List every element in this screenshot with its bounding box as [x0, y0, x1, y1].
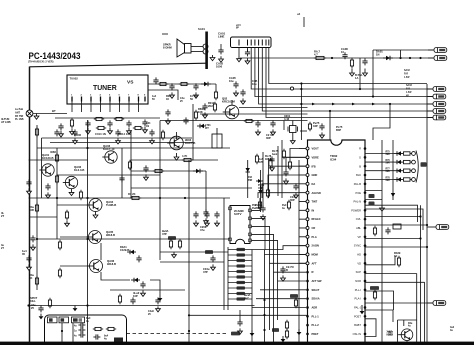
label R112: [208, 101, 215, 108]
svg-text:30P: 30P: [266, 136, 271, 140]
svg-text:1N: 1N: [146, 125, 149, 128]
wire h128: [300, 130, 307, 132]
svg-text:R78: R78: [386, 177, 391, 179]
svg-text:ADR: ADR: [312, 306, 318, 310]
connector plug CNA2: [428, 55, 447, 60]
wire rpin r5: [365, 256, 395, 265]
wire cn227: [427, 226, 430, 228]
wire q106 base: [60, 265, 90, 267]
label D101: [120, 245, 129, 252]
diode D110: [201, 82, 211, 86]
junction dots rail: [399, 57, 421, 59]
wire U201 video out 4: [365, 179, 394, 181]
resistor R129: [48, 298, 51, 308]
resistor R439: [397, 256, 400, 267]
svg-text:8 OHM: 8 OHM: [163, 46, 172, 50]
svg-text:besl: besl: [272, 152, 278, 156]
ground Q104e: [93, 212, 98, 219]
svg-text:TU002: TU002: [70, 77, 79, 81]
diode DA01: [383, 56, 393, 60]
resistor R302: [106, 327, 116, 330]
label left edge 1: [1, 117, 11, 124]
svg-text:2T: 2T: [1, 247, 4, 250]
wire bus L3: [259, 48, 433, 105]
svg-text:R-R: R-R: [404, 74, 408, 76]
diode D201: [197, 124, 206, 128]
resistor R217: [258, 200, 261, 210]
resistor R306: [285, 329, 288, 339]
wire vert x420: [420, 205, 422, 342]
ground C112: [194, 92, 199, 98]
wire audio rail upper: [373, 49, 433, 51]
svg-text:PL 1NB: PL 1NB: [15, 118, 24, 121]
capacitor C127: [136, 255, 141, 262]
wire v160: [159, 121, 161, 261]
wire v269: [269, 258, 271, 330]
capacitor C120: [26, 179, 31, 186]
capacitor C110: [153, 77, 158, 84]
ground C120: [27, 188, 32, 194]
label C126: [31, 303, 36, 310]
svg-text:PDET: PDET: [312, 332, 319, 336]
svg-text:TINT: TINT: [312, 200, 318, 204]
ground C121: [46, 192, 51, 198]
ground R127: [65, 221, 70, 227]
speaker plug pin B: [203, 49, 208, 54]
label R4u: [408, 322, 413, 328]
wire IF line 3: [160, 120, 308, 122]
wire IF line 4: [148, 90, 178, 100]
wire rpin 199: [365, 199, 382, 201]
ground C109: [150, 138, 155, 144]
transistor Q201: [223, 105, 239, 119]
capacitor C129: [130, 297, 135, 304]
svg-text:KL2.0-B: KL2.0-B: [74, 168, 84, 172]
ground C141: [205, 220, 210, 226]
ground under C102: [86, 128, 91, 134]
ground RA08: [350, 69, 355, 77]
svg-text:4068: 4068: [50, 150, 56, 154]
wire top rail: [30, 63, 207, 67]
ground CA05: [234, 90, 239, 96]
wire corner p2: [365, 209, 423, 230]
wire em to gnd: [150, 280, 160, 295]
svg-text:B5R: B5R: [248, 179, 253, 182]
wire pin stub long 1: [290, 149, 299, 161]
label R217: [252, 204, 257, 210]
wire h315: [189, 314, 307, 316]
ground C240: [320, 132, 325, 138]
resistor R103: [94, 117, 104, 120]
label MD1: [421, 162, 427, 167]
label Q103: [103, 144, 115, 151]
wire corner p1: [365, 205, 418, 222]
resistor R211: [153, 169, 164, 172]
label right corner: [450, 326, 455, 332]
wire mid bottom: [110, 289, 185, 291]
switch SW1: [48, 317, 58, 323]
wire rail x382: [381, 140, 383, 342]
capacitor C123: [119, 175, 124, 182]
svg-text:PLL-1: PLL-1: [312, 314, 320, 318]
diode DD77: [394, 169, 403, 173]
diode DD76: [394, 160, 403, 164]
capacitor C142: [214, 211, 219, 218]
svg-text:47P: 47P: [258, 186, 263, 190]
wire hot emitter: [406, 341, 408, 343]
wire hot base: [398, 334, 399, 336]
terminal circle 1: [412, 152, 416, 156]
capacitor C108: [115, 129, 120, 136]
connector plug CNB4: [427, 108, 446, 113]
wire fan 3: [270, 262, 307, 264]
wire box v2: [72, 323, 74, 345]
tag net HOT: [370, 286, 379, 290]
wire drive node 1: [410, 153, 412, 155]
speaker SP01: [177, 39, 191, 57]
resistor R221: [266, 188, 269, 198]
wire rpin r2: [365, 224, 427, 226]
resistor R111: [179, 82, 189, 85]
svg-text:OSL IN: OSL IN: [353, 332, 362, 336]
wire v264: [264, 250, 266, 342]
label R216: [248, 176, 253, 182]
ground C230: [238, 328, 243, 334]
wire fan 5: [278, 280, 307, 282]
svg-text:R: R: [359, 147, 361, 151]
ground C204: [271, 129, 276, 135]
wire dashed net: [127, 333, 228, 335]
tag net v1: [168, 236, 176, 240]
svg-text:KACT-B: KACT-B: [185, 141, 195, 145]
arrow marks bus: [312, 103, 375, 106]
wire v277: [277, 274, 279, 320]
small box filter: [393, 224, 401, 229]
wire pin stub long 3: [268, 175, 299, 190]
resistor R128: [35, 276, 38, 286]
ground C210: [281, 275, 286, 281]
label R78: [386, 177, 391, 182]
junction dots main: [27, 147, 190, 332]
label tuner right 1: [152, 95, 157, 101]
ground C128: [141, 290, 146, 296]
wire v57: [56, 148, 58, 239]
ground em: [158, 295, 163, 301]
label spotkill: [30, 296, 38, 303]
wire fan 1: [252, 246, 306, 250]
capacitor CA03: [245, 49, 250, 56]
module box outline: [45, 315, 127, 345]
svg-text:R76: R76: [386, 160, 391, 162]
ground C221: [294, 192, 299, 198]
capacitor C140: [193, 211, 198, 218]
capacitor C207: [183, 117, 188, 124]
wire v252b: [251, 250, 253, 343]
svg-text:IFT: IFT: [205, 127, 209, 130]
svg-text:u4: u4: [297, 12, 301, 16]
wire U201 left stubs: [299, 149, 306, 264]
connector plug CNB3: [427, 101, 446, 106]
svg-text:1K: 1K: [394, 254, 397, 258]
capacitor CA02: [218, 47, 223, 54]
ground under C103: [108, 128, 113, 134]
wire h138: [42, 137, 193, 139]
capacitor C211b: [203, 209, 208, 216]
tuner pins 1-9: [71, 94, 146, 102]
svg-text:1.5W: 1.5W: [404, 77, 410, 79]
label X201: [284, 114, 291, 121]
resistor R110: [158, 82, 168, 85]
ground ic left pin: [297, 329, 302, 335]
svg-text:9218-B: 9218-B: [106, 233, 115, 237]
capacitor C143: [210, 255, 215, 262]
svg-text:SCP: SCP: [356, 270, 362, 274]
wire hor drive: [365, 291, 394, 310]
wire v185: [188, 160, 190, 342]
wire rpin r6: [365, 273, 417, 275]
wire vert x301: [300, 84, 302, 141]
resistor R125: [128, 160, 131, 170]
ground C143: [211, 264, 216, 270]
svg-text:C014 1N: C014 1N: [95, 132, 106, 136]
ground R140: [172, 252, 177, 258]
wire hot cell top: [398, 319, 417, 321]
capacitor CB2: [78, 327, 85, 332]
wire rpin r4: [365, 246, 427, 248]
ground C220: [284, 178, 289, 184]
svg-text:4P: 4P: [406, 95, 409, 98]
junction x301: [300, 82, 302, 105]
svg-text:SA01: SA01: [198, 27, 205, 31]
resistor R130: [58, 240, 61, 250]
wire rpin r1: [365, 216, 421, 218]
tag net PLC2: [369, 194, 375, 198]
label C210: [286, 265, 294, 272]
wire u202 r1: [251, 198, 260, 210]
wire u202 r3: [251, 226, 269, 258]
svg-text:10K: 10K: [198, 110, 203, 114]
wire q104 base: [57, 204, 87, 206]
svg-text:4.43: 4.43: [284, 117, 290, 121]
svg-text:GND: GND: [312, 173, 318, 177]
wire u202 r5: [251, 240, 277, 274]
capacitor C103: [107, 120, 112, 127]
wire vert x416: [416, 274, 418, 343]
ic U201 outline: [308, 140, 366, 342]
label R205: [198, 107, 205, 114]
wire net PLC32: [228, 265, 252, 267]
svg-text:R75: R75: [386, 151, 391, 153]
svg-text:B: B: [359, 164, 361, 168]
svg-text:R77: R77: [386, 169, 391, 171]
capacitor C102: [85, 120, 90, 127]
wire U201 video out 3: [365, 170, 394, 172]
resistor RA05: [314, 56, 326, 59]
svg-text:B: B: [286, 268, 288, 272]
scan edge mark left: [0, 343, 474, 345]
wire v131: [130, 130, 132, 198]
ground C201: [203, 112, 208, 118]
label Q201: [222, 97, 236, 104]
capacitor C210: [280, 266, 285, 273]
label RA05: [314, 50, 321, 57]
resistor R124: [79, 190, 82, 200]
svg-text:POET: POET: [354, 314, 361, 318]
resistor R126: [130, 196, 141, 199]
resistor RD77: [404, 169, 411, 172]
wire v278: [277, 146, 279, 196]
svg-text:VS: VS: [127, 80, 134, 86]
wire audio rail: [240, 57, 433, 59]
label C240: [313, 121, 320, 128]
label CA02: [216, 62, 224, 69]
label C141: [200, 225, 207, 232]
svg-text:R4u: R4u: [408, 322, 413, 325]
svg-text:HD: HD: [357, 253, 361, 257]
dark blob pot: [114, 338, 123, 343]
connector CA01 LINE: [231, 37, 272, 48]
svg-text:(TH44A/B/C41-2 VER): (TH44A/B/C41-2 VER): [28, 61, 54, 64]
svg-text:2T: 2T: [1, 214, 4, 218]
label C109: [146, 122, 151, 128]
resistor R123: [35, 203, 38, 213]
resistor R218: [287, 200, 290, 210]
svg-text:G: G: [359, 155, 361, 159]
label u202 right: [255, 203, 262, 210]
ic U202 label: [234, 209, 244, 216]
capacitor CB1: [78, 322, 85, 327]
wire IF line 1: [239, 107, 308, 109]
svg-text:VDRE: VDRE: [312, 155, 319, 159]
connector plug CNA1: [428, 47, 447, 52]
ground C126: [39, 314, 44, 320]
terminal circle 2: [412, 160, 416, 164]
resistor R104: [114, 117, 124, 120]
wire bus L2: [255, 48, 433, 97]
svg-text:47u: 47u: [200, 228, 205, 232]
wire bus L5: [266, 48, 433, 118]
ground C108: [116, 138, 121, 144]
svg-text:B4P: B4P: [336, 128, 341, 132]
resistor R212: [255, 154, 258, 164]
label R77: [386, 169, 391, 174]
resistor R214: [282, 149, 285, 159]
svg-text:R4 2K: R4 2K: [128, 192, 136, 196]
svg-text:MOM: MOM: [312, 253, 318, 257]
terminal circle bus: [290, 87, 293, 90]
svg-text:1.5W: 1.5W: [406, 92, 412, 94]
resistor R141: [178, 239, 181, 249]
ground C125: [27, 264, 32, 270]
ground h305: [73, 306, 78, 312]
ground under C104: [127, 128, 132, 134]
label switches: [86, 317, 91, 323]
svg-text:BABT: BABT: [354, 323, 361, 327]
svg-text:IFB: IFB: [312, 164, 316, 168]
label Q102: [74, 165, 84, 172]
svg-text:NOR: NOR: [355, 279, 361, 283]
connector plug CN227: [430, 224, 449, 229]
ground X201: [290, 138, 295, 144]
svg-text:OVL: OVL: [356, 217, 362, 221]
transistor Q104: [87, 199, 103, 212]
wire h262: [160, 261, 224, 263]
ground under C105: [143, 127, 148, 133]
wire pin loop: [365, 319, 376, 337]
transistor Q101: [39, 164, 54, 176]
svg-text:PLL-2: PLL-2: [312, 323, 320, 327]
svg-text:1K: 1K: [265, 158, 268, 161]
wire net SPL: [228, 276, 252, 278]
label C128: [133, 291, 140, 298]
wire drive node 4: [410, 179, 412, 181]
capacitor C230: [237, 319, 242, 326]
svg-text:BLK: BLK: [356, 173, 361, 177]
capacitor C220: [283, 169, 288, 176]
svg-text:CR: CR: [312, 226, 316, 230]
svg-text:9P: 9P: [236, 28, 239, 30]
tag net PLC1: [369, 202, 375, 206]
capacitor C122: [143, 165, 148, 172]
ground Q102: [69, 189, 74, 196]
diode D211: [246, 160, 250, 176]
capacitor C124: [30, 235, 35, 242]
svg-text:47P: 47P: [203, 270, 208, 274]
resistor R431: [373, 226, 376, 236]
ground ladder: [380, 205, 385, 211]
resistor R301: [93, 327, 103, 330]
ground C212: [261, 214, 266, 220]
svg-text:HOT: HOT: [388, 332, 393, 334]
svg-text:IN: IN: [312, 208, 315, 212]
svg-text:SDA/T: SDA/T: [312, 288, 320, 292]
wire h148: [37, 147, 230, 149]
switch SW2: [59, 317, 69, 323]
ground C140: [194, 220, 199, 226]
capacitor CA09: [362, 58, 367, 65]
capacitor CA05: [233, 81, 238, 88]
capacitor C125: [26, 255, 31, 262]
svg-text:B-B: B-B: [406, 89, 410, 91]
wire pin w166: [272, 165, 306, 167]
ground C142: [215, 220, 220, 226]
mark top tick2: [162, 33, 168, 35]
wire v87: [87, 120, 89, 342]
resistor R131: [58, 268, 61, 278]
wire v263: [262, 152, 264, 208]
resistor R106: [133, 126, 143, 129]
wire fan 2: [265, 254, 307, 256]
resistor R213: [269, 158, 272, 168]
capacitor C107: [72, 129, 77, 136]
svg-text:KACT-10: KACT-10: [103, 147, 115, 151]
svg-text:ABL: ABL: [356, 226, 361, 230]
wire rpin 190: [365, 190, 382, 192]
ground CA03: [245, 58, 250, 64]
label C204: [266, 133, 274, 140]
wire v289: [281, 140, 283, 198]
label T201: [205, 124, 211, 130]
ground R306: [281, 336, 286, 342]
wire v206: [205, 171, 207, 212]
wire q201 col: [231, 100, 233, 105]
transistor Q102: [63, 176, 78, 188]
diode DD75: [394, 151, 403, 155]
svg-text:KRC102M: KRC102M: [222, 100, 236, 104]
wire v240: [239, 310, 241, 322]
ground C211b: [204, 218, 209, 224]
wire vert x360: [359, 58, 361, 89]
